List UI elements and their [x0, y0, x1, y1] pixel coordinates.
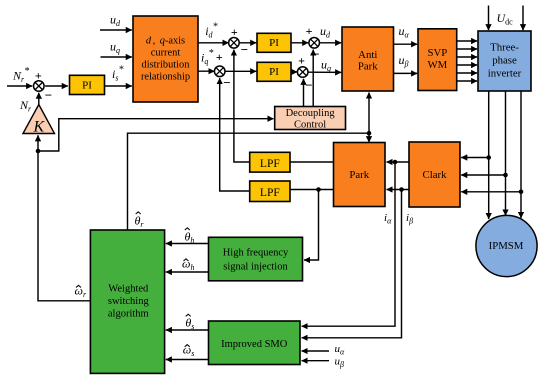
svg-text:relationship: relationship [141, 72, 190, 83]
svg-text:LPF: LPF [260, 158, 280, 170]
wire Decoupling to S4 minus [312, 50, 314, 107]
svg-text:distribution: distribution [142, 60, 191, 71]
svg-text:d,q-axis: d,q-axis [146, 36, 185, 47]
block PI2 d-axis current regulator [257, 33, 291, 52]
svg-text:+: + [231, 25, 238, 39]
wire ubeta input to SMO [302, 360, 329, 362]
svg-text:uq: uq [321, 58, 331, 74]
summing junction S3 q-axis current error [214, 66, 225, 77]
wire ualpha AntiPark to SVPWM [394, 43, 418, 45]
wire speed reference input [7, 85, 32, 87]
wire omega_r feedback from WSA [38, 135, 90, 300]
svg-text:+: + [216, 50, 223, 64]
svg-text:θs: θs [185, 316, 194, 332]
svg-text:K: K [33, 119, 46, 136]
svg-text:phase: phase [492, 55, 517, 67]
wire S2 to PI2 [240, 42, 257, 44]
svg-text:WM: WM [427, 59, 447, 71]
svg-text:ud: ud [110, 13, 121, 29]
svg-text:Nr*: Nr* [12, 66, 30, 84]
svg-text:switching: switching [108, 296, 150, 307]
svg-text:−: − [45, 88, 52, 103]
svg-text:uβ: uβ [399, 53, 409, 69]
wire S3 to PI3 [226, 70, 257, 72]
wire phase A inverter to IPMSM [488, 91, 490, 219]
svg-text:ωr: ωr [75, 284, 87, 300]
svg-text:θh: θh [185, 230, 195, 246]
svg-text:Park: Park [349, 169, 369, 181]
svg-text:algorithm: algorithm [108, 309, 149, 320]
wire ialpha down to Improved SMO [302, 162, 395, 326]
motor IPMSM [476, 215, 537, 276]
wire ud input to dq block [100, 29, 132, 31]
block Anti Park transform [342, 27, 394, 91]
svg-text:PI: PI [269, 66, 279, 78]
wire ubeta AntiPark to SVPWM [394, 72, 418, 74]
wire Park to LPF1 [290, 161, 334, 163]
svg-text:+: + [306, 24, 313, 38]
junction dot theta_r tap [367, 131, 372, 136]
svg-text:Udc: Udc [497, 11, 514, 27]
svg-text:−: − [223, 75, 230, 90]
svg-text:High frequency: High frequency [223, 248, 289, 259]
junction dot ibeta tap [399, 187, 404, 192]
svg-text:Nr: Nr [19, 98, 32, 114]
wire phase A to Clark [461, 157, 489, 159]
svg-text:Anti: Anti [358, 49, 377, 61]
wire omega_r branch to Decoupling [38, 119, 274, 151]
block Decoupling Control [275, 107, 346, 131]
junction dot phase C tap [519, 190, 524, 195]
label theta_r estimate [135, 212, 145, 229]
block Park transform [334, 143, 386, 207]
wire phase B inverter to IPMSM [505, 91, 507, 216]
svg-text:+: + [298, 54, 305, 68]
svg-text:inverter: inverter [488, 68, 522, 80]
summing junction S1 speed error [34, 81, 45, 92]
svg-text:signal injection: signal injection [223, 261, 288, 272]
svg-text:Improved SMO: Improved SMO [221, 339, 288, 350]
svg-text:ωs: ωs [183, 343, 195, 359]
svg-text:Clark: Clark [423, 169, 448, 181]
svg-text:θr: θr [135, 213, 145, 229]
label omega_r estimate [75, 284, 87, 300]
svg-text:ud: ud [320, 24, 331, 40]
svg-text:+: + [35, 68, 42, 82]
wire uq input to dq block [101, 56, 132, 58]
block High frequency signal injection [209, 237, 303, 280]
wire phase C to Clark [461, 191, 521, 193]
svg-text:uβ: uβ [335, 356, 345, 370]
wire K to S1 minus [38, 93, 40, 105]
wire theta_r up to AntiPark [368, 93, 370, 134]
wire theta_r from WSA to transforms [128, 133, 370, 230]
svg-text:Park: Park [358, 61, 378, 73]
wire Decoupling to S5 minus [303, 79, 305, 107]
svg-text:Three-: Three- [490, 42, 519, 54]
svg-text:IPMSM: IPMSM [489, 240, 524, 252]
svg-text:ωh: ωh [182, 257, 194, 273]
wire SVPWM to inverter 1 [457, 40, 478, 42]
wire SVPWM to inverter 5 [457, 72, 478, 74]
wire ialpha Clark to Park [387, 161, 410, 163]
wire omega_h HFSI to WSA [166, 271, 209, 273]
wire omega_s SMO to WSA [166, 359, 209, 361]
wire phase C inverter to IPMSM [520, 91, 522, 218]
svg-text:is*: is* [112, 65, 124, 83]
block LPF2 q-axis filter [250, 181, 290, 202]
wire SVPWM to inverter 3 [457, 56, 478, 58]
wire phase B to Clark [461, 174, 505, 176]
label omega_s estimate [183, 343, 195, 359]
wire ibeta down to Improved SMO [302, 190, 402, 338]
wire Udc supply left [488, 6, 490, 31]
wire theta_s SMO to WSA [166, 329, 209, 331]
svg-text:uq: uq [110, 40, 120, 56]
svg-text:uα: uα [399, 24, 410, 40]
label theta_h estimate [185, 228, 195, 245]
label omega_h estimate [182, 257, 194, 273]
junction dot phase A tap [486, 155, 491, 160]
junction dot ialpha tap [393, 160, 398, 165]
svg-text:iq*: iq* [201, 48, 214, 66]
svg-text:SVP: SVP [427, 47, 447, 59]
wire S5 to AntiPark [309, 71, 342, 73]
block PI1 speed regulator [70, 75, 105, 94]
svg-text:−: − [241, 42, 248, 57]
wire ualpha input to SMO [302, 350, 329, 352]
junction dot tap to signal injection [316, 187, 321, 192]
block dq-axis current distribution relationship [133, 16, 198, 102]
wire PI3 to S5 [291, 71, 297, 73]
svg-text:−: − [305, 78, 312, 93]
svg-text:Decoupling: Decoupling [286, 108, 336, 119]
svg-text:Weighted: Weighted [108, 284, 149, 295]
svg-text:uα: uα [335, 343, 346, 357]
wire theta_h HFSI to WSA [166, 243, 209, 245]
block SVPWM modulator [418, 29, 457, 91]
wire theta_r down to Park [368, 133, 370, 142]
svg-text:PI: PI [82, 79, 92, 91]
wire LPF2 to S3 minus [220, 78, 250, 191]
wire PI1 to dq distribution block [104, 85, 132, 87]
wire S4 to AntiPark [320, 42, 341, 44]
svg-text:iα: iα [384, 212, 392, 226]
svg-text:LPF: LPF [260, 187, 280, 199]
gain K triangle [23, 105, 55, 136]
block PI3 q-axis current regulator [257, 62, 291, 81]
svg-text:iβ: iβ [406, 212, 413, 226]
junction dot phase B tap [503, 173, 508, 178]
wire SVPWM to inverter 6 [457, 80, 478, 82]
svg-text:Control: Control [294, 120, 326, 131]
wire SVPWM to inverter 4 [457, 64, 478, 66]
wire SVPWM to inverter 2 [457, 48, 478, 50]
wire Park to LPF2 [290, 189, 334, 191]
wire id reference from dq block [198, 42, 229, 44]
wire LPF1 to S2 minus [234, 50, 250, 162]
summing junction S2 d-axis current error [229, 38, 240, 49]
wire tap down to HFSI [304, 190, 319, 261]
svg-text:current: current [151, 48, 181, 59]
svg-text:id*: id* [205, 22, 218, 40]
block Weighted switching algorithm [90, 230, 164, 373]
wire Udc supply right [522, 6, 524, 31]
junction dot omega_r tap [36, 149, 41, 154]
wire S1 to PI1 [45, 85, 68, 87]
summing junction S4 ud summing [309, 38, 320, 49]
block Improved SMO [209, 321, 301, 365]
summing junction S5 uq summing [297, 67, 308, 78]
wire iq reference from dq block [198, 70, 214, 72]
wire ibeta Clark to Park [387, 189, 410, 191]
block Clark transform [409, 142, 460, 207]
block LPF1 d-axis filter [250, 152, 290, 172]
svg-text:PI: PI [269, 37, 279, 49]
block three-phase inverter [478, 31, 531, 91]
label theta_s estimate [185, 314, 194, 331]
wire PI2 to S4 [291, 42, 308, 44]
